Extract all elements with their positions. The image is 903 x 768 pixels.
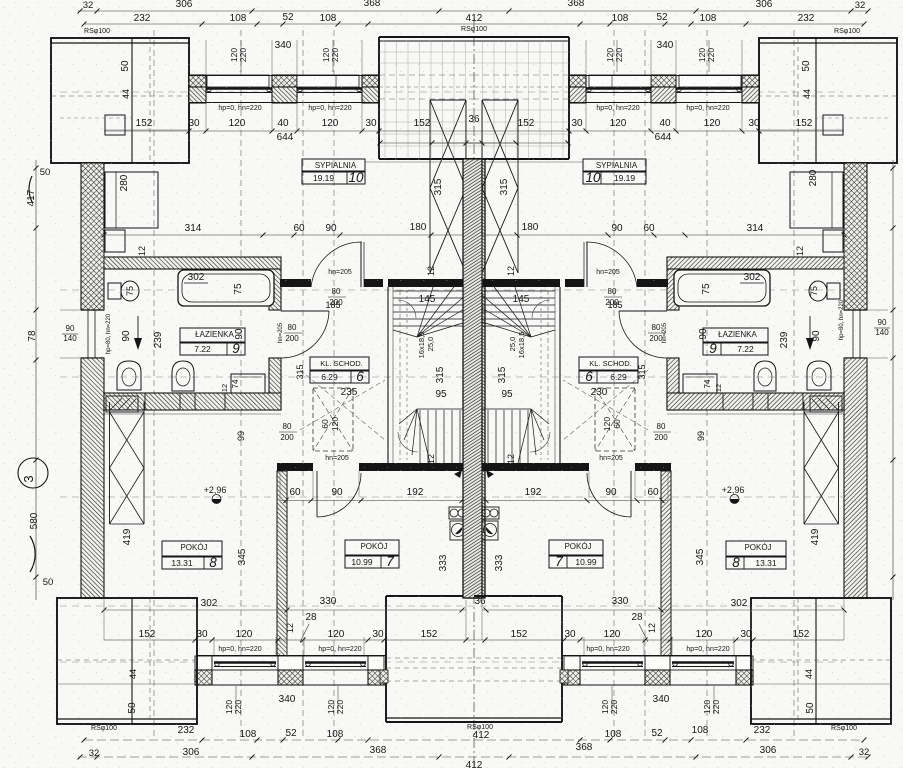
stair handrail dashes	[399, 290, 401, 460]
bottom wall pier B	[278, 656, 303, 670]
bathroom right wall lower	[269, 358, 281, 410]
dashed shaft box	[313, 388, 353, 451]
wardrobe box in terrace	[105, 115, 125, 135]
X brace column left	[429, 100, 431, 273]
margin vertical dim line	[35, 160, 37, 600]
pokoj7 door arc	[316, 471, 318, 517]
bottom wall pier C	[368, 656, 384, 670]
bathroom right wall upper	[269, 269, 281, 310]
roof block horizontal lines	[379, 51, 474, 53]
top wall pier 1	[189, 75, 206, 87]
bedroom door arc	[360, 242, 362, 287]
misc extension lines	[103, 235, 105, 269]
bottom centre terrace block left half	[386, 595, 474, 597]
bathtub	[178, 270, 274, 306]
washbasin 2	[172, 361, 194, 391]
pier stub at block edge	[380, 670, 388, 683]
bottom wall pier A	[195, 656, 212, 670]
bathroom door arc	[281, 310, 329, 312]
bathroom top wall	[104, 257, 281, 269]
top dimension row 2	[84, 23, 864, 25]
terrace bottom-left block	[57, 598, 197, 724]
bed left bedroom	[105, 172, 158, 228]
entry arrow bathroom	[137, 316, 139, 346]
stair lower radial fan	[417, 409, 430, 463]
right margin dim line	[892, 160, 894, 600]
nightstand	[105, 230, 125, 252]
hall top wall segment C	[388, 279, 466, 287]
KL SCHOD boxes	[310, 357, 369, 371]
shower tray	[106, 396, 138, 412]
bottom window B1	[212, 656, 278, 670]
entry arrow at stairs	[486, 470, 494, 478]
top wall pier 3 at centre block	[362, 75, 379, 87]
stair treads lower	[419, 410, 421, 463]
washer box	[231, 374, 265, 393]
chimney dim line full	[380, 142, 474, 144]
vanity counters bottom	[145, 393, 180, 410]
dim line 302/330	[104, 609, 466, 611]
construction grid dashed lines	[153, 30, 155, 740]
stair arcs	[398, 300, 416, 318]
left outer wall window gap	[81, 309, 104, 311]
stair bottom wall	[277, 463, 313, 471]
corridor movement dashed line	[300, 370, 385, 440]
top dimension row 1	[78, 10, 868, 12]
left X brace column (roof support)	[109, 402, 111, 524]
top wall pier 2	[272, 75, 297, 87]
window W2 top	[297, 75, 359, 87]
section mark B	[18, 458, 48, 488]
bottom window B2	[303, 656, 368, 670]
bottom facade face lines	[197, 655, 386, 657]
stair winder radial	[417, 295, 466, 337]
centre roof block left half	[379, 36, 474, 38]
left outer wall upper (crosshatch)	[81, 163, 104, 310]
bottom window dim row	[104, 639, 844, 641]
dim line pokoj top	[280, 500, 466, 502]
top facade face lines	[189, 75, 379, 77]
left outer wall lower (diag)	[81, 358, 104, 598]
washbasin 1	[117, 361, 141, 390]
toilet	[108, 283, 121, 299]
washer sink units at party wall	[449, 507, 466, 519]
central party wall	[466, 159, 485, 598]
hall top wall segment B	[364, 279, 383, 287]
stair left wall thin	[387, 287, 389, 463]
hall top wall segment A	[280, 279, 311, 287]
window jamb extension lines	[205, 103, 207, 131]
bathroom bottom wall	[104, 393, 281, 410]
SYPIALNIA room boxes	[302, 159, 365, 172]
wall between rooms	[277, 471, 287, 657]
POKOJ boxes	[162, 541, 222, 557]
window W1 top	[207, 75, 269, 87]
corridor dim stubs	[60, 309, 81, 311]
dim line chimney	[430, 142, 486, 144]
terrace top-left block	[51, 38, 189, 163]
dim line under top windows	[104, 130, 474, 132]
double edge below bathroom wall	[104, 413, 281, 415]
margin arcs	[29, 176, 32, 202]
dashed inner offsets	[60, 117, 132, 119]
dim line bedroom width	[104, 234, 466, 236]
stair treads upper	[393, 290, 466, 292]
bottom dim rows	[84, 739, 864, 741]
